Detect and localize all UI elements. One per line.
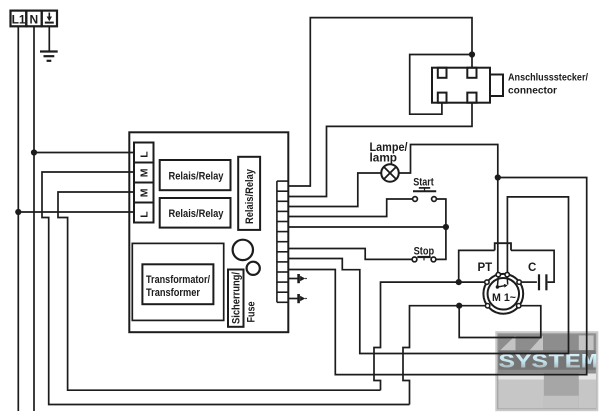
- terminal M (pin 2): [134, 163, 154, 183]
- Start button S1: [413, 197, 418, 202]
- terminal L (pin 1): [134, 143, 154, 163]
- svg-text:N: N: [30, 12, 39, 26]
- wire stub5 to start/stop node: [288, 226, 446, 228]
- wire motor-bottom line down to bus y=404.5: [403, 306, 486, 405]
- faston connector tab 1: [288, 274, 307, 283]
- node above connector: [469, 51, 475, 57]
- svg-text:L: L: [139, 211, 151, 218]
- wire terminal M2 to bottom bus (y=404.5): [42, 172, 410, 405]
- wire earth down: [48, 26, 50, 51]
- terminal strip (right edge of control box): [277, 181, 288, 302]
- control box U1: [129, 132, 288, 332]
- lamp E1: [381, 164, 399, 182]
- wire stub3 to lamp: [288, 173, 381, 207]
- svg-text:Transformer: Transformer: [146, 287, 201, 299]
- relay K2: [160, 198, 231, 228]
- wire PT loop right to capacitor: [511, 250, 554, 282]
- watermark logo SYSTEM: [496, 332, 597, 410]
- relay K1: [160, 160, 231, 190]
- ground: [40, 52, 58, 61]
- svg-text:C: C: [528, 262, 536, 274]
- wire PT loop left: [459, 250, 495, 282]
- Stop button S2: [412, 257, 417, 262]
- wire stub2 to connector bottom-right pin: [288, 103, 472, 197]
- wire L1 to terminal L (bottom): [18, 211, 134, 213]
- connector tab: [490, 75, 503, 97]
- terminal M (pin 3): [134, 183, 154, 203]
- svg-text:M: M: [139, 188, 151, 197]
- wire motor-left line down to bus y=390.2: [374, 282, 485, 390]
- faston connector tab 2: [288, 294, 307, 303]
- motor terminals: [485, 272, 522, 308]
- svg-text:Anschlussstecker/: Anschlussstecker/: [508, 72, 588, 84]
- svg-text:lamp: lamp: [370, 153, 398, 165]
- transformer T1 outer: [132, 243, 223, 320]
- wire stub1 to top bus and connector pin: [288, 18, 472, 186]
- indicator circle small: [247, 262, 260, 275]
- indicator circle big: [233, 240, 253, 260]
- wire Start right down to Stop right: [436, 199, 446, 259]
- svg-text:SYSTEM: SYSTEM: [499, 352, 598, 375]
- svg-text:Transformator/: Transformator/: [146, 274, 210, 286]
- wire lamp right to motor top-left: [399, 145, 498, 273]
- node on L1 wire: [15, 209, 21, 215]
- wire connector loop to bottom-left pin: [410, 55, 472, 115]
- svg-text:Relais/Relay: Relais/Relay: [244, 168, 256, 224]
- wire terminal M3 to bottom bus (y=390.2): [58, 192, 381, 390]
- wire N vertical: [33, 26, 35, 411]
- PE earth pin symbol: [45, 13, 54, 23]
- node on N wire: [31, 149, 37, 155]
- svg-text:Sicherrung/: Sicherrung/: [231, 272, 243, 324]
- svg-text:Start: Start: [413, 177, 434, 189]
- terminal L (pin 4): [134, 203, 154, 223]
- svg-text:M 1~: M 1~: [492, 292, 517, 304]
- capacitor C1: [545, 274, 547, 290]
- connector pin squares: [438, 68, 477, 103]
- node start/stop: [443, 224, 449, 230]
- svg-text:connector: connector: [508, 85, 557, 97]
- node motor bottom junction: [456, 303, 462, 309]
- svg-text:Relais/Relay: Relais/Relay: [169, 171, 225, 183]
- wire stub7 to motor top-right (via right side): [288, 197, 568, 354]
- node motor left junction: [456, 279, 462, 285]
- wire stub6 to Stop left contact: [288, 249, 412, 260]
- wire capacitor to motor right: [521, 281, 537, 283]
- transformer T1 inner: [142, 264, 213, 304]
- fuse F1: [228, 270, 244, 327]
- svg-text:M: M: [139, 168, 151, 177]
- wire stub4 to Start left contact: [288, 199, 412, 217]
- PT thermal protector block: [495, 243, 511, 250]
- svg-text:L1: L1: [12, 12, 26, 26]
- wire stub8 to lamp junction (via far right): [288, 178, 586, 375]
- terminal block L1 N PE: [11, 11, 58, 27]
- node lamp junction: [495, 174, 501, 180]
- svg-text:Fuse: Fuse: [245, 302, 257, 323]
- motor internal switch: [496, 277, 499, 287]
- svg-text:PT: PT: [478, 262, 493, 274]
- relay K3 (vertical): [238, 157, 260, 230]
- wire N to terminal L (top): [34, 152, 134, 154]
- svg-text:Relais/Relay: Relais/Relay: [169, 208, 225, 220]
- wire L1 vertical: [17, 26, 19, 411]
- svg-text:Stop: Stop: [414, 245, 435, 257]
- connector J1 body: [432, 68, 490, 103]
- motor M1: [483, 274, 523, 314]
- wire motor bottom branch to bottom-right terminal: [459, 306, 541, 338]
- svg-text:L: L: [139, 151, 151, 158]
